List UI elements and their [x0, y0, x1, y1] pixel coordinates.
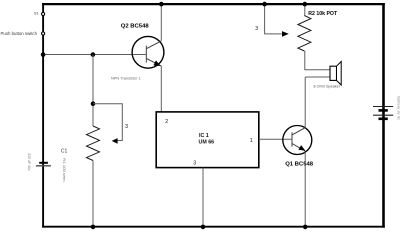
svg-text:3: 3	[255, 26, 258, 32]
node left rail / base wire	[41, 52, 46, 57]
node base wire / R1 branch	[91, 52, 96, 57]
op-amp U1 : IC1 UM66 box	[156, 112, 259, 168]
capacitor C1	[39, 162, 48, 164]
svg-text:225 uF 40v: 225 uF 40v	[27, 153, 31, 171]
node bottom rail / IC pin3	[201, 225, 206, 230]
svg-text:R1 100 ohm: R1 100 ohm	[62, 158, 66, 182]
svg-text:1: 1	[250, 138, 253, 144]
node top rail / Q2 collector	[159, 2, 164, 7]
node bottom rail / Q1 emitter	[303, 225, 308, 230]
svg-text:Q2 BC548: Q2 BC548	[121, 23, 150, 29]
wire IC pin 1 to Q1 base	[259, 138, 292, 140]
svg-text:S1: S1	[34, 11, 40, 16]
node top rail / R2 wiper	[262, 2, 267, 7]
svg-text:Q1 BC548: Q1 BC548	[285, 162, 314, 168]
battery BT1	[373, 106, 393, 108]
transistor Q1	[283, 126, 312, 155]
arrowhead R2 wiper	[282, 31, 289, 37]
svg-text:UM 66: UM 66	[199, 139, 215, 145]
wire R1 wiper	[93, 104, 122, 141]
wire Q2 emitter to IC pin 2	[160, 66, 162, 112]
switch S1	[42, 12, 45, 15]
wire IC pin 3 to ground rail	[202, 168, 204, 227]
wire R2 bottom to speaker	[305, 51, 330, 70]
svg-text:8 Ohm Speaker: 8 Ohm Speaker	[314, 84, 341, 88]
wire base Q2	[43, 54, 146, 56]
svg-text:3: 3	[125, 124, 128, 130]
svg-text:Push button switch: Push button switch	[1, 31, 38, 36]
node R1 wiper branch	[91, 101, 96, 106]
svg-text:NPN Transistor 1: NPN Transistor 1	[111, 76, 141, 81]
arrowhead R1 wiper	[112, 138, 118, 144]
wire R1 bottom	[92, 160, 94, 226]
wire bottom rail	[42, 226, 385, 228]
wire Q1 emitter to ground rail	[304, 152, 306, 227]
svg-text:3: 3	[193, 161, 196, 167]
wire R1 top	[92, 55, 94, 126]
node top rail / R2	[303, 2, 308, 7]
wire Q2 collector	[160, 4, 162, 41]
wire left rail	[42, 3, 44, 228]
resistor R2 10k POT	[304, 4, 306, 16]
transistor Q2	[132, 36, 164, 68]
wire R2 wiper	[265, 4, 282, 34]
wire Q1 collector	[304, 77, 306, 127]
svg-text:IC 1: IC 1	[199, 133, 209, 139]
wire top rail	[42, 3, 385, 5]
wire speaker to Q1 collector	[305, 76, 330, 78]
svg-text:C1: C1	[61, 148, 68, 154]
node bottom rail / R1	[91, 225, 96, 230]
svg-text:2: 2	[165, 119, 168, 125]
wire right rail	[382, 3, 385, 228]
svg-text:Battery 3v dc: Battery 3v dc	[396, 96, 400, 120]
resistor R1 (preset)	[87, 126, 100, 161]
speaker LS1	[330, 66, 337, 80]
svg-text:R2 10k POT: R2 10k POT	[308, 11, 338, 17]
